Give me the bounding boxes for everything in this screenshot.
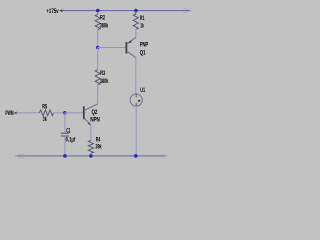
arrowhead at PWM input — [14, 112, 17, 115]
wire C1 to bottom rail — [64, 136, 66, 156]
svg-text:380k: 380k — [100, 78, 109, 85]
svg-text:R1: R1 — [140, 15, 145, 22]
svg-text:R3: R3 — [100, 70, 105, 77]
wire node B to Q2 base — [65, 112, 84, 114]
arrowhead at bottom rail left end — [15, 154, 24, 159]
resistor R1 — [133, 11, 138, 30]
wire R5 to node B — [53, 112, 65, 114]
resistor R2 — [95, 14, 100, 29]
wire R1 to Q1 emitter — [135, 29, 137, 37]
svg-text:+175v: +175v — [46, 8, 59, 15]
wire U1 to bottom rail — [135, 106, 137, 156]
arrowhead at bottom rail right end — [161, 154, 168, 158]
svg-text:R2: R2 — [100, 15, 105, 22]
junction dot top rail / R1 — [134, 9, 138, 13]
svg-text:0.1µf: 0.1µf — [66, 137, 76, 144]
wire node A to R3 — [97, 48, 99, 70]
resistor R3 — [95, 70, 100, 85]
node ground rail (bottom wire) — [15, 155, 167, 157]
svg-text:380k: 380k — [100, 22, 109, 29]
capacitor C1 — [61, 133, 69, 136]
wire PWM to R5 — [17, 112, 40, 114]
wire R2 to node A — [97, 30, 99, 48]
svg-text:U1: U1 — [140, 87, 145, 94]
junction dot R4 / bottom rail — [89, 154, 93, 158]
junction dot C1 / bottom rail — [63, 154, 67, 158]
junction node B (C1 / Q2 base) — [63, 111, 67, 115]
transistor Q1 (PNP) — [126, 37, 135, 57]
junction dot top rail / R2 — [96, 9, 100, 13]
wire top rail to R2 — [97, 11, 99, 15]
resistor R4 — [88, 140, 93, 153]
arrowhead at +175v rail right end — [184, 9, 193, 13]
svg-text:R5: R5 — [42, 104, 47, 111]
neon lamp U1 — [130, 94, 142, 106]
arrowhead at +175v rail left end — [59, 9, 62, 12]
wire node B to C1 — [64, 113, 66, 133]
svg-text:PNP: PNP — [140, 42, 149, 49]
svg-text:3k: 3k — [43, 116, 48, 123]
svg-text:C1: C1 — [66, 127, 71, 134]
wire node A to Q1 base — [98, 47, 126, 49]
svg-text:39k: 39k — [95, 144, 102, 151]
junction dot U1 / bottom rail — [134, 154, 138, 158]
wire R4 to bottom rail — [90, 153, 92, 156]
resistor R5 — [39, 110, 53, 116]
svg-text:1k: 1k — [140, 23, 144, 30]
node +175v rail (top supply wire) — [63, 10, 193, 12]
wire R3 to Q2 collector — [97, 85, 99, 104]
svg-text:Q2: Q2 — [92, 109, 98, 116]
svg-text:Q1: Q1 — [140, 49, 146, 56]
svg-text:NPN: NPN — [90, 116, 100, 123]
junction node A (Q1 base node) — [96, 46, 100, 50]
wire Q1 collector to U1 — [135, 58, 137, 94]
svg-text:PWM: PWM — [5, 110, 13, 117]
transistor Q2 (NPN) — [84, 104, 98, 125]
wire Q2 emitter to R4 — [90, 125, 92, 140]
